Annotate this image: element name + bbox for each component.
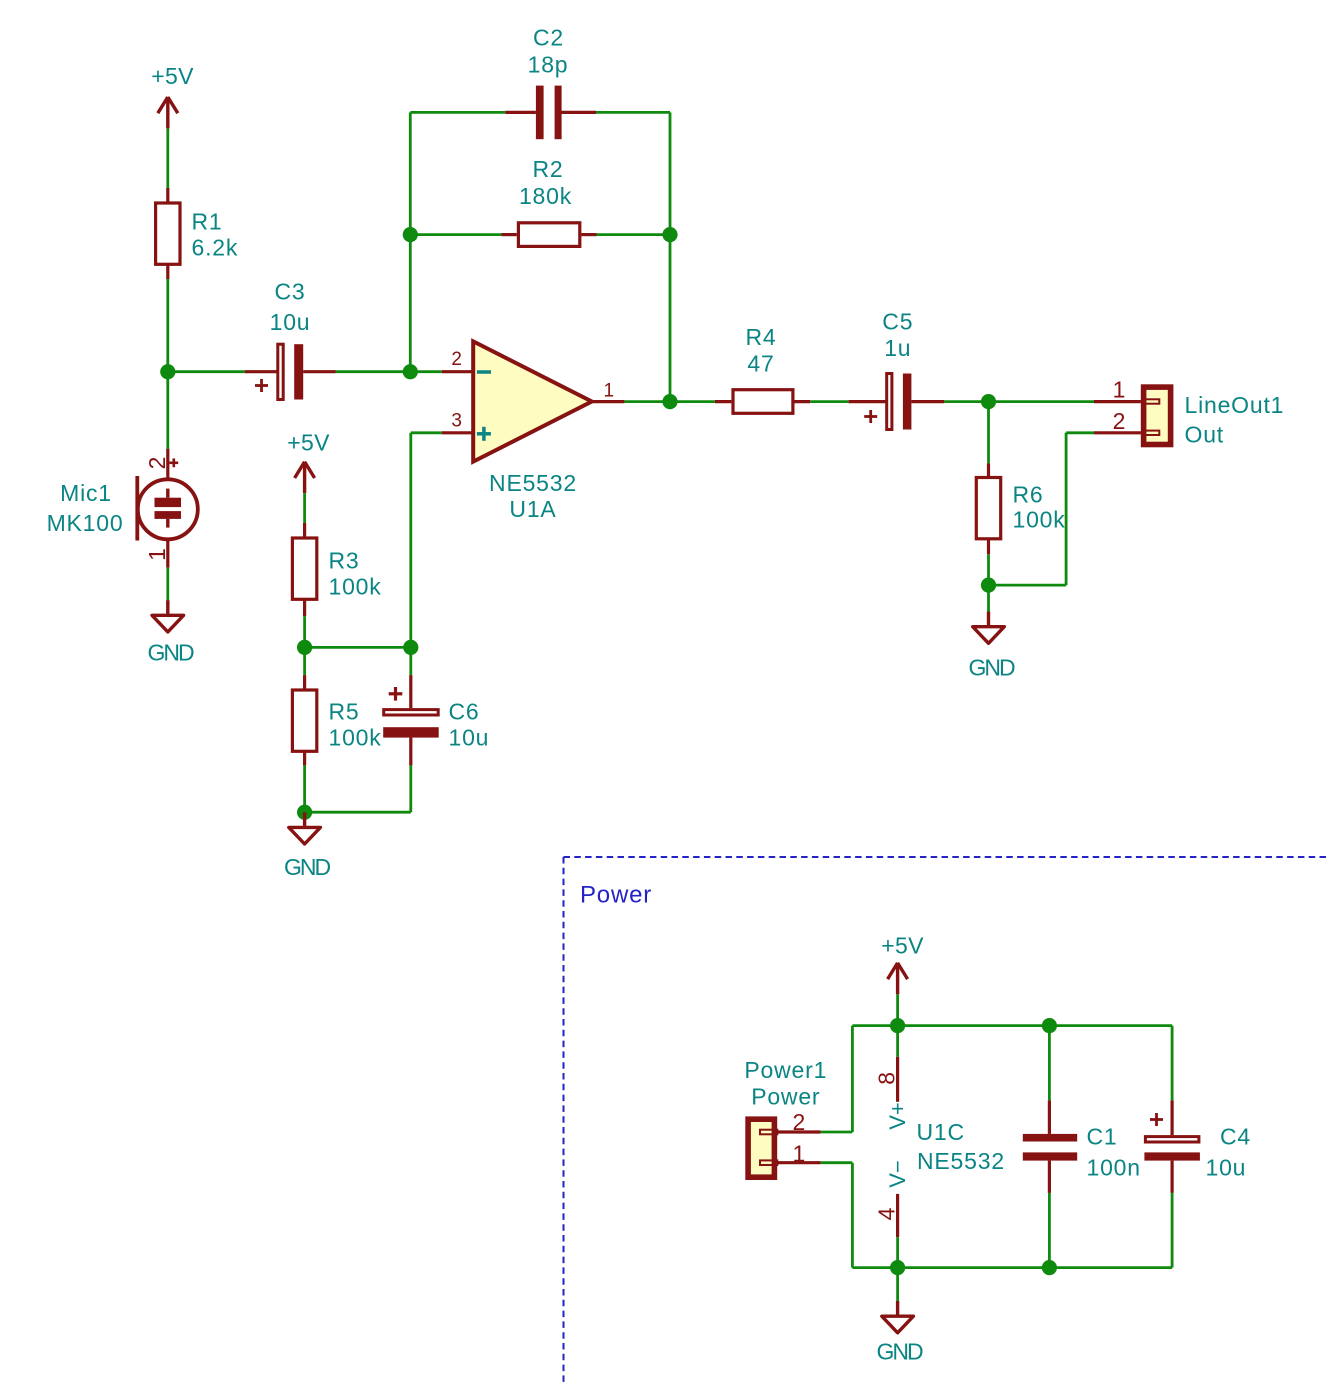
power symbol +5V (R1) xyxy=(151,63,194,128)
wire R4 to C5 xyxy=(810,400,848,403)
wire R2 right xyxy=(597,233,671,236)
svg-text:NE5532: NE5532 xyxy=(489,470,577,496)
svg-text:LineOut1: LineOut1 xyxy=(1185,392,1285,418)
wire bottom rail left drop xyxy=(821,1163,853,1268)
junction bias node left xyxy=(297,640,312,655)
svg-text:MK100: MK100 xyxy=(47,510,124,536)
svg-text:GND: GND xyxy=(876,1339,923,1365)
svg-text:Power: Power xyxy=(751,1084,820,1110)
capacitor C3 10u xyxy=(245,279,336,400)
junction out node xyxy=(981,394,996,409)
svg-text:47: 47 xyxy=(747,351,774,377)
svg-text:2: 2 xyxy=(1113,408,1126,434)
wire C3 to inv node xyxy=(336,370,442,373)
wire R1 to mic node xyxy=(166,279,169,449)
junction R2 left xyxy=(403,227,418,242)
junction top rail C1 xyxy=(1042,1018,1057,1033)
wire out node to connector xyxy=(989,400,1095,403)
resistor R3 100k xyxy=(292,523,381,616)
svg-text:100k: 100k xyxy=(329,574,382,600)
svg-text:C3: C3 xyxy=(274,279,305,305)
wire R2 left xyxy=(410,233,501,236)
dashed box Power section xyxy=(564,857,1330,1383)
capacitor C6 10u xyxy=(383,647,489,812)
junction bias node right xyxy=(403,640,418,655)
op-amp U1A NE5532 xyxy=(442,341,625,522)
svg-text:R1: R1 xyxy=(192,209,223,235)
wire bias to pin3 vertical xyxy=(411,433,442,648)
svg-text:+5V: +5V xyxy=(881,933,924,959)
wire bias node horizontal xyxy=(305,646,411,649)
ground power GND xyxy=(876,1301,923,1365)
capacitor C2 18p xyxy=(505,25,596,140)
label Power section xyxy=(580,882,652,909)
svg-text:2: 2 xyxy=(144,457,170,470)
junction inv node xyxy=(403,364,418,379)
wire feedback left vertical xyxy=(409,112,412,371)
svg-text:V+: V+ xyxy=(885,1102,910,1130)
svg-text:R6: R6 xyxy=(1013,482,1044,508)
svg-text:4: 4 xyxy=(874,1207,900,1220)
junction R2 right xyxy=(662,227,677,242)
svg-text:GND: GND xyxy=(968,655,1015,681)
svg-text:R4: R4 xyxy=(745,324,776,350)
svg-text:NE5532: NE5532 xyxy=(917,1148,1005,1174)
ground out GND xyxy=(968,585,1015,680)
svg-text:10u: 10u xyxy=(449,725,490,751)
svg-text:18p: 18p xyxy=(528,52,569,78)
svg-text:C1: C1 xyxy=(1087,1124,1118,1150)
wire mic to GND xyxy=(166,568,169,600)
svg-text:R2: R2 xyxy=(532,156,563,182)
wire +5V to top rail xyxy=(896,994,899,1025)
bottom rail xyxy=(852,1266,1172,1269)
svg-text:Power1: Power1 xyxy=(744,1057,827,1083)
resistor R5 100k xyxy=(292,647,381,812)
svg-text:1u: 1u xyxy=(884,335,911,361)
wire U1C to GND xyxy=(896,1268,899,1301)
svg-text:3: 3 xyxy=(451,411,462,432)
svg-text:C6: C6 xyxy=(449,699,480,725)
wire junction to R4 xyxy=(670,400,715,403)
svg-text:10u: 10u xyxy=(1206,1155,1247,1181)
svg-text:180k: 180k xyxy=(519,183,572,209)
wire feedback right vertical xyxy=(669,112,672,401)
junction mic node xyxy=(160,364,175,379)
resistor R2 180k xyxy=(501,156,596,246)
resistor R1 xyxy=(156,188,239,279)
ground bias GND xyxy=(284,812,331,880)
junction bottom rail U1C xyxy=(890,1260,905,1275)
svg-text:Mic1: Mic1 xyxy=(60,480,112,506)
svg-text:8: 8 xyxy=(874,1072,900,1085)
junction R5 bottom xyxy=(297,805,312,820)
ground mic GND xyxy=(147,600,194,665)
svg-text:R3: R3 xyxy=(329,548,360,574)
svg-text:1: 1 xyxy=(793,1141,806,1167)
wire C2 top right xyxy=(596,111,670,114)
junction bottom rail C1 xyxy=(1042,1260,1057,1275)
svg-text:GND: GND xyxy=(284,854,331,880)
svg-text:100k: 100k xyxy=(329,725,382,751)
capacitor C4 10u xyxy=(1144,1026,1251,1268)
svg-text:100k: 100k xyxy=(1013,507,1066,533)
junction top rail U1C xyxy=(890,1018,905,1033)
wire R3 to bias node xyxy=(303,616,306,647)
wire opamp out to junction xyxy=(624,400,670,403)
svg-text:100n: 100n xyxy=(1087,1155,1141,1181)
svg-text:Out: Out xyxy=(1185,422,1224,448)
svg-text:2: 2 xyxy=(451,349,462,370)
svg-text:1: 1 xyxy=(1113,377,1126,403)
svg-text:V−: V− xyxy=(885,1160,910,1188)
power symbol +5V (R3) xyxy=(287,430,330,494)
wire C6 to R5 bottom xyxy=(305,811,411,814)
svg-text:C5: C5 xyxy=(882,309,913,335)
svg-text:+5V: +5V xyxy=(287,430,330,456)
wire R6 bottom to pin2 riser xyxy=(989,433,1095,585)
svg-text:1: 1 xyxy=(144,548,170,561)
connector Power1 xyxy=(744,1057,827,1177)
junction output xyxy=(662,394,677,409)
svg-text:U1A: U1A xyxy=(509,496,556,522)
op-amp U1C power pins xyxy=(874,1026,1005,1268)
top rail xyxy=(852,1024,1172,1027)
capacitor C1 100n xyxy=(1023,1026,1141,1268)
svg-text:C4: C4 xyxy=(1220,1124,1251,1150)
wire node to C3 xyxy=(168,370,245,373)
power symbol +5V (power) xyxy=(881,933,924,995)
microphone Mic1 MK100 xyxy=(47,449,198,568)
svg-text:U1C: U1C xyxy=(917,1119,965,1145)
svg-text:1: 1 xyxy=(604,381,615,402)
svg-text:10u: 10u xyxy=(270,309,311,335)
resistor R4 47 xyxy=(715,324,810,413)
connector LineOut1 xyxy=(1094,377,1284,448)
wire +5V to R1 xyxy=(166,128,169,188)
capacitor C5 1u xyxy=(849,309,945,430)
svg-text:GND: GND xyxy=(147,640,194,666)
wire C2 top left xyxy=(410,111,505,114)
wire +5V to R3 xyxy=(303,493,306,523)
junction R6 bottom xyxy=(981,578,996,593)
wire C5 to out node xyxy=(944,400,988,403)
svg-text:Power: Power xyxy=(580,882,652,909)
svg-text:2: 2 xyxy=(793,1109,806,1135)
svg-text:C2: C2 xyxy=(533,25,564,51)
svg-text:+5V: +5V xyxy=(151,63,194,89)
wire top rail left drop xyxy=(821,1026,853,1132)
resistor R6 100k xyxy=(976,402,1065,585)
svg-text:R5: R5 xyxy=(329,699,360,725)
svg-text:6.2k: 6.2k xyxy=(192,235,239,261)
